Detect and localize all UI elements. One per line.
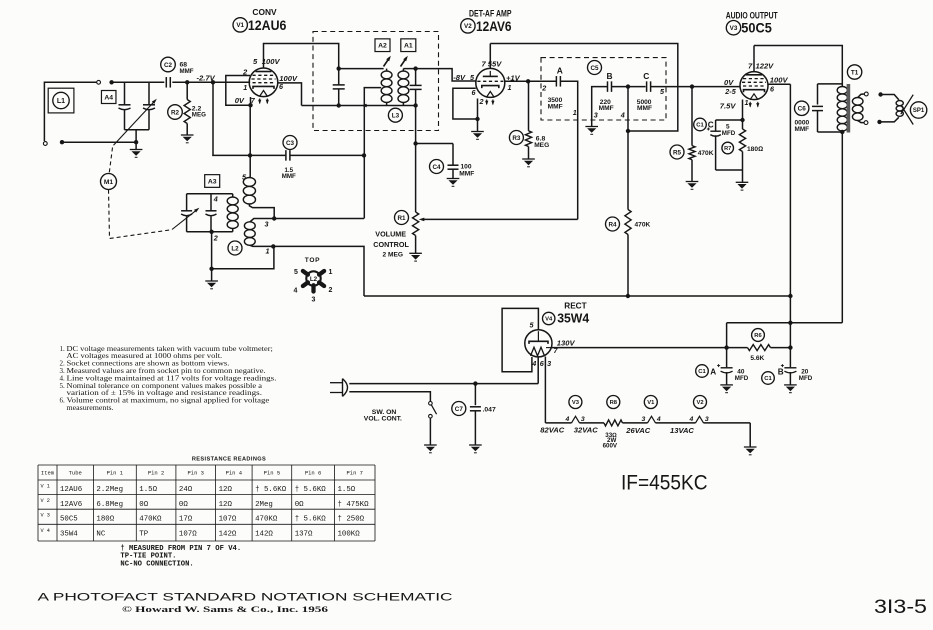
resistor R3 6.8MEG: [528, 81, 530, 131]
capacitor C6 across primary: [818, 83, 843, 85]
L3 primary cap: [337, 66, 341, 70]
svg-text:.047: .047: [483, 407, 496, 414]
svg-text:Item: Item: [41, 470, 55, 477]
wire V3 plate to output transformer: [753, 46, 755, 72]
tube V4 circle label: [543, 312, 555, 324]
svg-text:† 5.6KΩ: † 5.6KΩ: [255, 486, 287, 494]
svg-text:2: 2: [541, 84, 546, 93]
wire tank to ground: [211, 232, 213, 281]
svg-text:L3: L3: [392, 112, 400, 119]
svg-text:A2: A2: [378, 43, 387, 50]
svg-text:T1: T1: [851, 69, 859, 76]
wire L2 pin5 coil bottom to pin3 node: [249, 204, 274, 219]
svg-text:C4: C4: [432, 164, 441, 171]
svg-text:RESISTANCE READINGS: RESISTANCE READINGS: [192, 457, 266, 463]
svg-text:470KΩ: 470KΩ: [255, 515, 278, 523]
capacitor C3 1.5MMF: [285, 150, 287, 161]
svg-text:R5: R5: [673, 149, 682, 156]
svg-text:Pin 2: Pin 2: [148, 470, 165, 477]
wire grid line to C3: [213, 154, 285, 156]
svg-text:3: 3: [594, 110, 598, 119]
tuning capacitor section (antenna) variable: [148, 82, 150, 104]
trimmer A3 box: [205, 175, 220, 188]
trimmer arrow A1: [401, 58, 407, 67]
svg-text:12AV6: 12AV6: [60, 501, 82, 509]
capacitor C1-A 40MFD: [721, 367, 733, 369]
capacitor C2 68MMF: [165, 77, 167, 88]
capacitor C7 .047: [474, 384, 476, 406]
ground (C4): [447, 179, 460, 187]
svg-text:5.6K: 5.6K: [750, 355, 764, 362]
svg-text:A1: A1: [404, 43, 413, 50]
wire couplate pin3 ground stub: [592, 87, 608, 126]
svg-text:35W4: 35W4: [557, 310, 590, 325]
svg-text:R1: R1: [397, 215, 406, 222]
svg-text:470KΩ: 470KΩ: [139, 515, 162, 523]
svg-text:NC-NO CONNECTION.: NC-NO CONNECTION.: [120, 561, 193, 569]
svg-text:5.: 5.: [59, 382, 65, 390]
svg-text:MMF: MMF: [637, 105, 652, 112]
svg-text:-8V: -8V: [453, 73, 466, 82]
svg-text:2-5: 2-5: [724, 87, 736, 96]
svg-text:5: 5: [660, 87, 665, 96]
svg-text:TOP: TOP: [305, 257, 321, 264]
svg-text:50C5: 50C5: [60, 515, 78, 523]
capacitor C4 100MMF: [452, 144, 454, 166]
svg-text:C2: C2: [164, 62, 173, 69]
svg-text:TP-TIE POINT.: TP-TIE POINT.: [120, 553, 176, 561]
svg-text:470K: 470K: [635, 222, 651, 229]
svg-text:100: 100: [461, 164, 472, 171]
tube V1 circle label: [233, 18, 247, 32]
tube V4 35W4: [525, 330, 552, 357]
wire L3 primary top: [339, 68, 384, 70]
svg-text:32VAC: 32VAC: [574, 425, 598, 434]
svg-text:12AV6: 12AV6: [476, 19, 512, 34]
tube V2 circle label: [461, 19, 475, 33]
wire L2 pin1 to B+ bus: [273, 246, 364, 296]
svg-text:R6: R6: [754, 333, 762, 339]
wire B+ bus: [364, 295, 790, 297]
svg-text:5: 5: [294, 269, 298, 276]
wire tuning cap bottom: [125, 129, 150, 131]
svg-text:470K: 470K: [698, 150, 714, 157]
svg-text:3: 3: [705, 416, 709, 423]
IF transformer L3 dashed box: [313, 32, 439, 131]
cathode network top wire: [716, 119, 743, 121]
svg-text:6: 6: [770, 84, 775, 93]
wire C2 to V1 grid: [172, 81, 250, 83]
svg-text:2: 2: [479, 97, 484, 106]
cathode network bottom wire: [716, 169, 743, 171]
L3 label: [388, 108, 402, 122]
mechanical link dashed M1 to oscillator cap: [109, 190, 172, 239]
svg-text:1: 1: [573, 108, 577, 117]
svg-text:Pin 6: Pin 6: [305, 470, 322, 477]
variable cap arrow: [114, 101, 155, 145]
ground (R3): [522, 159, 535, 167]
svg-text:R7: R7: [724, 146, 731, 152]
L2 lower winding: [250, 219, 274, 222]
oscillator variable cap arrow: [172, 210, 197, 230]
svg-text:4: 4: [294, 288, 298, 295]
svg-text:107Ω: 107Ω: [219, 515, 237, 523]
svg-text:3: 3: [265, 220, 269, 229]
svg-text:CONTROL: CONTROL: [373, 240, 409, 249]
svg-text:TP: TP: [139, 531, 148, 539]
svg-text:130V: 130V: [557, 338, 576, 347]
wire V1 pin2 to pin7 bracket: [226, 76, 251, 106]
wire tuning cap to ground: [135, 130, 137, 150]
wire lower antenna return: [60, 140, 64, 144]
ground (couplate pin3): [585, 127, 598, 135]
power plug: [330, 382, 343, 384]
svg-text:1: 1: [745, 98, 749, 107]
svg-text:180Ω: 180Ω: [747, 146, 763, 153]
svg-text:2: 2: [329, 287, 333, 294]
wire V1 pin1 jog down-right: [211, 154, 214, 156]
svg-text:A: A: [710, 367, 716, 376]
resistor R5 470K grid return: [691, 87, 693, 146]
wire V3 cathode: [742, 100, 744, 121]
svg-text:MFD: MFD: [799, 375, 813, 382]
svg-text:4: 4: [620, 111, 625, 120]
ground (C7): [469, 445, 482, 453]
volume control R1 2MEG: [413, 212, 419, 236]
svg-text:0Ω: 0Ω: [295, 501, 304, 509]
svg-text:100KΩ: 100KΩ: [338, 531, 361, 539]
couplate C5 dashed box: [541, 58, 666, 120]
svg-text:MMF: MMF: [282, 173, 296, 180]
wire V2 plate to couplate pin4: [490, 44, 678, 132]
trimmer arrow A2: [384, 58, 390, 67]
svg-text:† 5.6KΩ: † 5.6KΩ: [295, 486, 327, 494]
svg-text:7: 7: [748, 62, 753, 71]
svg-text:MEG: MEG: [534, 142, 549, 149]
svg-text:600V: 600V: [603, 442, 618, 449]
ground (R5): [686, 182, 699, 190]
wire grid node down to C3 line: [212, 82, 214, 155]
tube V1 12AU6: [249, 68, 278, 97]
svg-text:C6: C6: [798, 106, 807, 113]
svg-text:CONV: CONV: [252, 7, 277, 17]
svg-text:Pin 3: Pin 3: [187, 470, 204, 477]
svg-text:RECT: RECT: [564, 302, 586, 311]
svg-text:NC: NC: [96, 531, 105, 539]
svg-text:L2: L2: [231, 245, 239, 252]
svg-text:0Ω: 0Ω: [179, 501, 188, 509]
wire C1-A leg: [726, 323, 728, 368]
svg-text:V1: V1: [236, 22, 244, 29]
svg-text:MFD: MFD: [722, 130, 736, 137]
svg-text:142Ω: 142Ω: [219, 531, 237, 539]
ground (V3 cathode): [742, 170, 744, 182]
svg-text:MMF: MMF: [599, 105, 614, 112]
svg-text:R8: R8: [610, 400, 618, 406]
svg-text:© Howard W. Sams & Co., Inc. 1: © Howard W. Sams & Co., Inc. 1956: [122, 604, 329, 614]
tuning capacitor section (antenna) fixed plate: [124, 82, 126, 104]
trimmer A4: [101, 91, 116, 104]
svg-text:3: 3: [642, 416, 646, 423]
ground (R1): [409, 253, 422, 261]
svg-text:5: 5: [253, 57, 258, 66]
svg-text:7.5V: 7.5V: [720, 102, 737, 111]
svg-text:C: C: [643, 71, 649, 81]
ground (C1-B): [784, 385, 797, 393]
resistor R7 180ohm: [742, 120, 744, 129]
svg-text:26VAC: 26VAC: [625, 426, 650, 435]
wire cap B to cap C: [612, 86, 646, 88]
resistor R4 470K plate load: [627, 131, 629, 210]
svg-text:Pin 1: Pin 1: [107, 470, 124, 477]
svg-text:50C5: 50C5: [741, 21, 772, 36]
svg-text:B: B: [778, 367, 784, 376]
svg-text:C5: C5: [590, 65, 599, 72]
resistor R6 5.6K: [748, 345, 771, 351]
svg-text:Pin 5: Pin 5: [264, 470, 281, 477]
wire couplate pin4 down: [627, 87, 629, 131]
wire AC hot to rectifier: [349, 383, 538, 385]
svg-text:C1: C1: [764, 376, 772, 382]
V2 heater pins: [696, 416, 704, 423]
svg-text:† 250Ω: † 250Ω: [338, 515, 365, 523]
wire T1 primary bottom B+ rail: [841, 132, 843, 323]
wire cap A to AF output: [560, 81, 577, 219]
tube V3 50C5: [740, 72, 768, 100]
svg-text:6: 6: [540, 359, 545, 368]
wire R1 wiper to AF line: [421, 218, 577, 220]
ground (oscillator): [205, 281, 218, 289]
svg-text:V1: V1: [647, 400, 655, 406]
svg-text:13VAC: 13VAC: [670, 426, 694, 435]
svg-text:12AU6: 12AU6: [248, 18, 287, 33]
svg-text:24Ω: 24Ω: [179, 486, 193, 494]
switch SW on volume control: [429, 402, 433, 406]
wire antenna to C2: [112, 81, 165, 83]
svg-text:L2: L2: [310, 276, 318, 283]
wire heater string to ground: [749, 423, 751, 447]
svg-text:122V: 122V: [756, 62, 775, 71]
svg-text:1: 1: [508, 83, 512, 92]
svg-text:4: 4: [565, 416, 570, 423]
svg-text:V2: V2: [696, 400, 703, 406]
ground (R2): [181, 135, 194, 143]
svg-text:Tube: Tube: [69, 470, 82, 477]
speaker SP1: [878, 92, 882, 96]
svg-text:1: 1: [329, 269, 333, 276]
svg-text:2: 2: [213, 234, 218, 243]
L3 secondary cap: [415, 69, 417, 86]
oscillator padder capacitor: [210, 194, 212, 210]
svg-text:100V: 100V: [770, 75, 789, 84]
svg-text:17Ω: 17Ω: [179, 515, 193, 523]
svg-text:V3: V3: [730, 25, 738, 32]
svg-text:VOL. CONT.: VOL. CONT.: [364, 415, 402, 422]
svg-text:A: A: [557, 66, 563, 76]
wire V4 pin6 to AC line: [537, 357, 539, 384]
trimmer A2 box: [375, 39, 390, 52]
wire V2 pin2 stub: [477, 99, 479, 120]
svg-text:† 5.6KΩ: † 5.6KΩ: [295, 515, 327, 523]
wire V4 pin3 to heater string: [544, 357, 546, 423]
wire V1 plate to L3: [264, 44, 339, 69]
wire 130V rectifier output: [552, 347, 748, 349]
svg-text:0V: 0V: [235, 96, 245, 105]
svg-text:Pin 7: Pin 7: [346, 470, 363, 477]
wire C3 to L3 primary return: [290, 154, 364, 156]
svg-text:12Ω: 12Ω: [219, 501, 233, 509]
svg-text:measurements.: measurements.: [67, 404, 114, 412]
wire V2 diode output: [505, 80, 556, 82]
svg-text:6.8Meg: 6.8Meg: [96, 501, 123, 509]
tube V3 circle label: [726, 21, 740, 35]
svg-text:3: 3: [547, 359, 551, 368]
wire V4 plate loop: [502, 308, 538, 371]
capacitor C1-B 20MFD: [784, 367, 796, 369]
L3 primary winding: [386, 69, 388, 71]
ground (switch): [424, 445, 437, 453]
V3 heater pins: [572, 416, 580, 423]
wire L3 secondary out to V2 grid: [416, 69, 476, 81]
wire V2 plate up: [489, 44, 491, 69]
wire V3 screen to B+: [768, 83, 790, 85]
svg-text:142Ω: 142Ω: [255, 531, 273, 539]
svg-text:C7: C7: [455, 406, 464, 413]
V1 heater pins: [648, 416, 656, 423]
svg-text:6: 6: [472, 88, 477, 97]
wire AVC branch to C4: [416, 143, 453, 145]
svg-text:MMF: MMF: [459, 171, 474, 178]
svg-text:MMF: MMF: [180, 68, 194, 75]
ground (heater): [744, 447, 757, 455]
svg-text:C3: C3: [286, 140, 295, 147]
svg-text:A4: A4: [104, 94, 113, 101]
svg-text:C: C: [708, 121, 714, 130]
svg-text:R3: R3: [512, 135, 521, 142]
wire pin3 node to L3 vertical: [274, 218, 364, 220]
svg-text:3: 3: [312, 297, 316, 304]
svg-text:VOLUME: VOLUME: [375, 230, 406, 239]
svg-text:35W4: 35W4: [60, 531, 78, 539]
resistor R8 33ohm: [604, 420, 623, 426]
svg-text:3: 3: [581, 416, 585, 423]
svg-text:7: 7: [482, 60, 487, 69]
svg-text:2Meg: 2Meg: [255, 501, 273, 509]
ground (V2 cathode): [471, 132, 484, 140]
svg-text:L1: L1: [57, 98, 65, 105]
svg-text:R2: R2: [171, 109, 180, 116]
svg-text:1: 1: [266, 247, 270, 256]
T1 secondary winding: [852, 98, 863, 106]
svg-text:B: B: [607, 71, 613, 81]
svg-text:1: 1: [243, 83, 247, 92]
svg-text:R4: R4: [608, 221, 617, 228]
svg-text:137Ω: 137Ω: [295, 531, 313, 539]
svg-text:180Ω: 180Ω: [96, 515, 114, 523]
L2 tank winding: [232, 194, 234, 197]
svg-text:IF=455KC: IF=455KC: [621, 472, 708, 495]
mechanical link dashed to M1: [109, 148, 112, 173]
svg-text:V3: V3: [572, 400, 580, 406]
L2 label: [228, 241, 242, 255]
svg-text:MMF: MMF: [795, 126, 810, 133]
wire pin1 down to osc ground line: [212, 246, 274, 268]
svg-text:12AU6: 12AU6: [60, 486, 82, 494]
wire V2 cathode bracket: [453, 88, 478, 119]
svg-text:5: 5: [530, 321, 535, 330]
svg-text:1.5Ω: 1.5Ω: [338, 486, 356, 494]
wire AC neutral to switch: [349, 392, 430, 402]
svg-text:Pin 4: Pin 4: [226, 470, 243, 477]
wire L3 secondary top to grid: [403, 68, 415, 70]
svg-text:4: 4: [656, 416, 661, 423]
svg-text:V4: V4: [545, 317, 553, 323]
svg-text:3I3-5: 3I3-5: [874, 597, 927, 618]
svg-text:AUDIO OUTPUT: AUDIO OUTPUT: [726, 11, 778, 21]
wire L3 bottom: [302, 105, 416, 107]
oscillator variable capacitor: [186, 194, 188, 210]
wire L3 secondary bottom down (AVC): [415, 106, 417, 213]
tube V2 12AV6: [476, 68, 505, 97]
heater labels: [569, 396, 582, 409]
svg-text:107Ω: 107Ω: [179, 531, 197, 539]
svg-text:1.: 1.: [59, 345, 65, 353]
svg-text:4: 4: [213, 195, 218, 204]
svg-text:-2.7V: -2.7V: [197, 73, 216, 82]
wire L3 primary tap down to osc pin3: [364, 88, 381, 219]
wire cap C to V3 grid: [651, 86, 740, 88]
svg-text:A PHOTOFACT STANDARD NOTATI: A PHOTOFACT STANDARD NOTATION SCHEMATIC: [38, 592, 454, 604]
heater string wire: [545, 422, 571, 424]
svg-text:† 475KΩ: † 475KΩ: [338, 501, 370, 509]
L3 secondary winding: [398, 71, 409, 79]
svg-text:C1: C1: [696, 123, 704, 129]
svg-text:2 MEG: 2 MEG: [383, 252, 404, 259]
svg-text:SP1: SP1: [913, 108, 925, 114]
svg-text:2.2Meg: 2.2Meg: [96, 486, 123, 494]
output transformer T1: [847, 65, 861, 79]
svg-text:DET-AF AMP: DET-AF AMP: [469, 9, 512, 19]
svg-text:100V: 100V: [262, 57, 281, 66]
svg-text:MFD: MFD: [735, 375, 749, 382]
svg-text:V2: V2: [464, 23, 472, 30]
loop antenna L1: [44, 82, 97, 141]
svg-text:82VAC: 82VAC: [540, 425, 564, 434]
wire V1 screen pin6 to L3 bottom: [278, 83, 302, 106]
speaker magnet lines: [901, 95, 913, 115]
svg-text:V 3: V 3: [41, 513, 50, 519]
svg-text:V 4: V 4: [41, 528, 50, 534]
svg-text:V 2: V 2: [41, 498, 50, 504]
svg-text:0Ω: 0Ω: [139, 501, 148, 509]
svg-text:V 1: V 1: [41, 484, 50, 490]
oscillator tank top wire: [187, 193, 233, 195]
svg-text:C1: C1: [698, 369, 706, 375]
wire V1 cathode pin7: [250, 97, 252, 105]
svg-text:M1: M1: [104, 179, 113, 186]
antenna terminal node: [109, 80, 113, 84]
svg-text:6.: 6.: [59, 397, 65, 405]
trimmer A1 box: [401, 39, 416, 52]
ground (C1-A): [720, 385, 733, 393]
svg-text:4: 4: [689, 416, 694, 423]
oscillator tank bottom wire: [187, 231, 233, 233]
svg-text:A3: A3: [208, 178, 217, 185]
svg-text:MMF: MMF: [548, 104, 563, 111]
resistor R2 2.2MEG: [186, 82, 188, 99]
motor/dial M1: [101, 174, 117, 190]
svg-text:MEG: MEG: [192, 111, 206, 118]
